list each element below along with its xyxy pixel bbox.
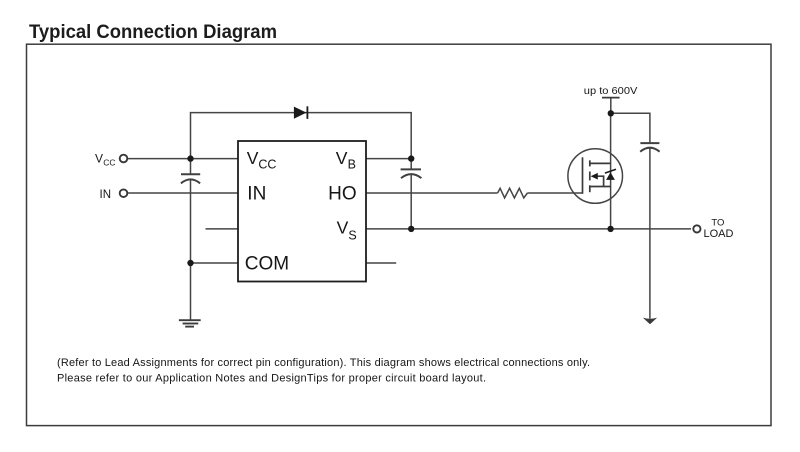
capacitor C2 (bootstrap) — [401, 169, 422, 178]
svg-text:IN: IN — [247, 184, 266, 205]
body diode D2 — [606, 172, 615, 180]
ground (3-bar) at left rail — [179, 320, 201, 326]
ground (arrow) under C3 — [643, 318, 657, 325]
wire: IN input line — [127, 192, 238, 194]
svg-text:V: V — [336, 148, 348, 168]
body arrow — [591, 173, 598, 180]
diode D1 (bootstrap) — [294, 106, 308, 119]
svg-text:HO: HO — [328, 183, 357, 204]
svg-text:CC: CC — [258, 158, 276, 172]
capacitor C3 (bus) — [640, 143, 659, 152]
svg-text:IN: IN — [100, 189, 112, 201]
wire: HO line from U1 to gate resistor — [366, 192, 498, 194]
wire: HV bus terminal drop — [610, 98, 612, 114]
terminal IN (open circle) — [120, 189, 128, 197]
gate plate — [582, 157, 584, 194]
wire: top bootstrap rail from left rail to VB rail — [191, 113, 412, 159]
wire: unconnected left stub of U1 — [206, 228, 239, 230]
pin label VB — [336, 148, 356, 172]
svg-text:Typical Connection Diagram: Typical Connection Diagram — [29, 22, 277, 43]
wire: COM line — [191, 262, 239, 264]
svg-text:B: B — [348, 158, 356, 172]
junction node at HV bus — [608, 110, 614, 116]
wire: unconnected bottom-right stub of U1 — [366, 262, 396, 264]
junction node at Vcc / left rail — [187, 155, 193, 161]
channel segment (body) — [589, 172, 591, 181]
HV bus terminal bar — [602, 97, 620, 99]
svg-text:V: V — [247, 148, 259, 168]
terminal TO LOAD (open circle) — [693, 225, 700, 232]
channel segment (drain) — [589, 160, 591, 166]
wire: gate wire from resistor to Q1 gate — [527, 192, 582, 194]
wire: Vcc input line — [127, 158, 238, 160]
figure border frame — [27, 44, 772, 425]
wire: VB line from U1 to bootstrap rail — [366, 158, 411, 160]
source connection — [590, 186, 611, 188]
svg-text:TO: TO — [711, 217, 724, 228]
svg-text:LOAD: LOAD — [704, 228, 734, 240]
terminal Vcc (open circle) — [120, 155, 128, 163]
junction node at Q1 source / VS — [607, 226, 613, 232]
junction node at VB rail — [408, 155, 414, 161]
wire: left rail from Vcc node down to C1 — [190, 159, 192, 175]
svg-text:(Refer to Lead Assignments for: (Refer to Lead Assignments for correct p… — [57, 357, 590, 369]
junction node at VS / VB rail — [408, 226, 414, 232]
svg-text:S: S — [348, 228, 356, 242]
wire: branch from HV node to C3 — [611, 113, 650, 143]
pin label VS — [337, 218, 357, 243]
label Vcc — [95, 151, 116, 167]
svg-text:CC: CC — [103, 157, 115, 167]
pin label VCC — [247, 148, 277, 172]
junction node at COM / left rail — [187, 260, 193, 266]
wire: VB rail from node down to C2 — [410, 159, 412, 170]
transistor Q1 (power MOSFET) — [568, 149, 623, 204]
svg-text:Please refer to our Applicatio: Please refer to our Application Notes an… — [57, 372, 486, 384]
wire: VB rail from C2 down to VS node — [410, 174, 412, 229]
wire: drain/source vertical through Q1 — [610, 113, 612, 229]
resistor R1 (gate) — [498, 188, 528, 198]
channel segment (source) — [589, 185, 591, 192]
wire: VS line from U1 to load terminal — [366, 228, 691, 230]
svg-text:V: V — [95, 151, 103, 165]
svg-text:COM: COM — [245, 254, 289, 275]
wire: left rail from C1 down to ground — [190, 180, 192, 320]
IC U1 gate driver — [238, 141, 366, 282]
drain connection — [590, 162, 611, 164]
capacitor C1 (Vcc decoupling) — [181, 174, 200, 183]
svg-text:V: V — [337, 218, 349, 238]
body connection step — [597, 176, 604, 186]
wire: from C3 down to arrow ground — [649, 148, 651, 319]
svg-text:up to 600V: up to 600V — [584, 85, 638, 97]
